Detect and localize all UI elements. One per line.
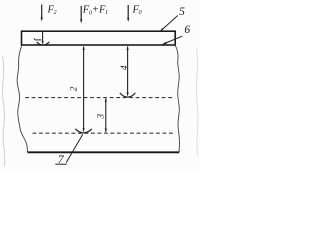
- svg-text:4: 4: [120, 65, 130, 70]
- svg-text:6: 6: [184, 24, 190, 36]
- svg-text:2: 2: [70, 86, 80, 91]
- svg-text:F0: F0: [132, 4, 143, 16]
- svg-text:F0+F1: F0+F1: [82, 4, 108, 16]
- svg-text:5: 5: [179, 6, 185, 18]
- svg-text:F2: F2: [47, 4, 57, 16]
- svg-text:3: 3: [97, 114, 107, 120]
